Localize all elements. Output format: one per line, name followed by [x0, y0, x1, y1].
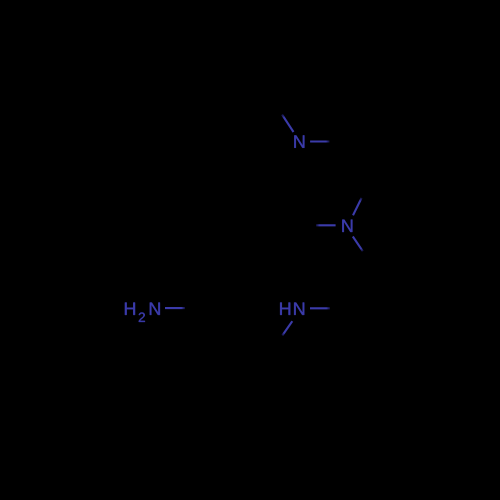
bond B5 (N2-C lower-right half-bond): [353, 237, 363, 252]
atom N2 (middle nitrogen label): [342, 220, 352, 232]
atom N4 N of H2N label: [150, 303, 160, 315]
bond B3 (N2-C upper-right half-bond): [353, 198, 362, 215]
bond B2 (N1-C right half-bond): [310, 140, 329, 142]
atom N3 N of HN label: [294, 303, 304, 315]
atom N4 subscript 2 of H2N label: [139, 312, 145, 321]
bond B8 (N4-C right half-bond): [165, 307, 185, 309]
atom N1 (top nitrogen label): [294, 135, 304, 147]
bond B6 (N3-C right half-bond): [310, 307, 330, 309]
atom N4 H of H2N label: [125, 303, 135, 315]
bond B1 (C-N1 upper-left half-bond): [282, 115, 294, 133]
bond B4 (C-N2 left half-bond): [316, 224, 336, 226]
atom N3 H of HN label: [280, 303, 290, 315]
bond B7 (N3-C lower-left half-bond): [282, 321, 292, 335]
